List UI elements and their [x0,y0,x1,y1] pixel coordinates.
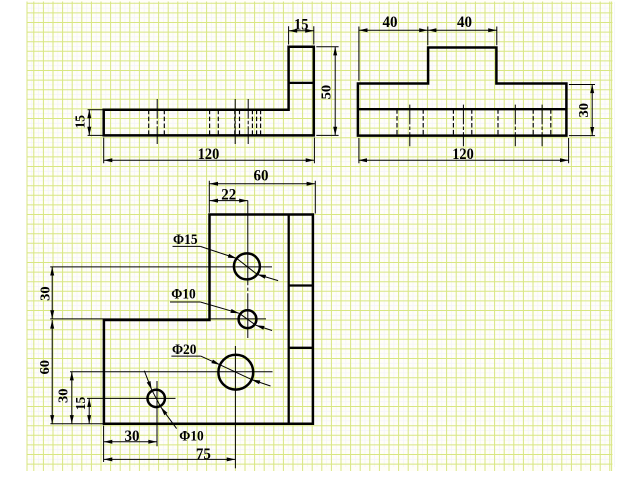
dimension 40 right line [428,29,497,31]
svg-text:15: 15 [294,17,309,34]
hole circle Phi15 [234,253,260,279]
svg-text:30: 30 [55,388,70,403]
plan bottom edge extension [50,423,104,425]
dimension 50 extension lines [316,47,338,136]
Phi20 horizontal centerline [70,371,273,373]
svg-text:30: 30 [37,286,52,301]
front view outline [104,47,314,136]
svg-text:Φ10: Φ10 [171,286,196,302]
svg-text:75: 75 [196,446,211,463]
dimension 15 plan line [88,398,90,423]
side view plate top line [358,108,567,110]
Phi10 lower leader [144,371,151,390]
svg-text:60: 60 [37,360,52,375]
svg-text:60: 60 [254,168,269,185]
front view hole centerlines [157,99,248,144]
Phi15 Phi10 vertical centerline [247,201,249,339]
svg-text:Φ15: Φ15 [173,232,198,248]
dimension 15 top line [289,30,314,32]
side view outline [358,48,567,136]
Phi20 vertical centerline [234,346,236,468]
Phi15 leader [173,245,201,247]
bottom dims left extension [103,426,105,463]
dimension 50 line [334,47,336,136]
dimension 40 left line [359,29,428,31]
plan view wall step edges [289,286,313,348]
svg-text:15: 15 [73,397,88,411]
Phi10 leader [170,301,200,303]
svg-text:40: 40 [383,14,398,31]
dimension 75 line [104,458,236,460]
hole circle Phi20 [218,355,253,390]
dimension 22 line [209,200,247,202]
dimension 120 side extension lines [359,138,569,163]
svg-text:30: 30 [125,428,140,445]
svg-text:30: 30 [576,103,591,118]
svg-text:120: 120 [198,146,220,163]
dimension 15 left extension lines [88,110,104,136]
dimension 30 bottom line [104,441,157,443]
dimension 60 left line [51,320,53,424]
hole circle Phi10 [239,310,257,328]
dimension 30 left line [51,267,53,319]
Phi15 horizontal centerline [50,266,272,268]
svg-text:22: 22 [221,186,236,203]
svg-text:120: 120 [452,146,474,163]
hole circle Phi10 lower [148,390,165,407]
side view hidden hole lines [397,109,551,135]
dimension 15 left line [88,110,90,136]
dimension 40 extension lines [359,27,497,81]
dimension 60 extension lines [209,181,315,214]
Phi10 lower vertical centerline [156,381,158,446]
svg-text:15: 15 [73,115,88,129]
side view hole centerlines [410,105,542,147]
dimension 30 inner line [71,372,73,424]
dimension 30 side extension lines [569,85,595,136]
Phi20 leader [171,355,200,357]
plan view wall inner edge [288,215,290,424]
dimension 120 side line [358,159,568,161]
front view hidden hole lines [149,110,261,136]
svg-text:40: 40 [457,14,472,31]
svg-text:Φ10: Φ10 [179,429,204,445]
svg-text:50: 50 [319,85,334,100]
front view wall step line [289,82,314,84]
dimension 15 top extension lines [289,26,314,44]
svg-text:Φ20: Φ20 [172,342,197,358]
dimension 30 side line [591,85,593,136]
Phi10 lower horizontal centerline [87,397,176,399]
plan view outline [104,215,313,424]
dimension 120 front line [104,159,315,161]
dimension 60 line [209,183,315,185]
Phi10 horizontal centerline [50,318,266,320]
dimension 120 front extension lines [104,138,315,164]
